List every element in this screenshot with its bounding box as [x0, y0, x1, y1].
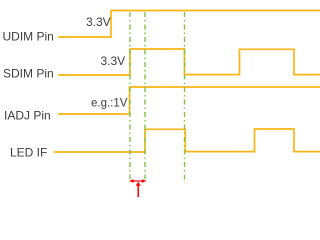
- dashed marker line 1 (x=130): [129, 12, 131, 179]
- IADJ waveform: [58, 87, 320, 114]
- label UDIM Pin: [3, 30, 54, 44]
- UDIM waveform: [58, 11, 320, 38]
- svg-text:SDIM Pin: SDIM Pin: [3, 66, 54, 80]
- svg-text:e.g.:1V: e.g.:1V: [91, 97, 128, 109]
- label LED IF: [10, 145, 47, 159]
- svg-text:3.3V: 3.3V: [86, 15, 111, 29]
- label 3.3V (UDIM): [86, 15, 111, 29]
- label IADJ Pin: [4, 108, 51, 122]
- svg-text:3.3V: 3.3V: [101, 54, 126, 68]
- svg-text:LED IF: LED IF: [10, 145, 47, 159]
- label SDIM Pin: [3, 66, 54, 80]
- LED IF waveform: [54, 129, 320, 152]
- svg-text:IADJ Pin: IADJ Pin: [4, 108, 51, 122]
- label 3.3V (SDIM): [101, 54, 126, 68]
- label e.g.:1V: [91, 97, 128, 109]
- dashed marker line 3 (x=184.5): [184, 12, 186, 183]
- SDIM waveform: [58, 49, 320, 75]
- red vertical pointer arrow: [136, 182, 141, 197]
- svg-text:UDIM Pin: UDIM Pin: [3, 30, 54, 44]
- red delay double arrow: [129, 179, 147, 183]
- dashed marker line 2 (x=145): [144, 12, 146, 179]
